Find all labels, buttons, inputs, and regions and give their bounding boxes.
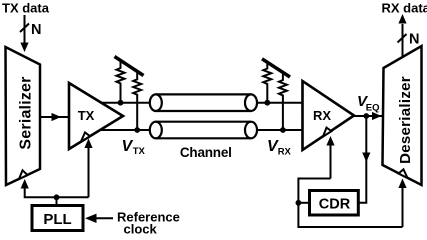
TX clock input triangle: [81, 132, 90, 141]
termination resistor TX top: [117, 60, 125, 103]
wire channel to RX minus: [257, 129, 333, 131]
deserializer clock input triangle: [399, 169, 408, 178]
RX clock input triangle: [323, 128, 332, 137]
bus-width slash N: [20, 24, 29, 33]
bus-width slash N RX: [398, 34, 407, 43]
wire CDR clock to deserializer with arrowhead: [398, 179, 406, 228]
wire dot to PLL box: [56, 197, 58, 205]
wire deserializer to RX data bus: [398, 14, 406, 57]
RX supply termination rail: [262, 59, 290, 77]
junction dot CDR output: [296, 200, 302, 206]
wire serializer to TX with arrowhead: [40, 113, 69, 121]
transmission line cylinder bottom: [150, 122, 257, 139]
svg-text:TX data: TX data: [2, 1, 50, 16]
svg-text:clock: clock: [124, 221, 158, 236]
wire PLL clock to TX with arrowhead: [84, 139, 92, 198]
TX driver triangle: [69, 83, 123, 149]
wire channel to RX plus: [257, 102, 335, 104]
svg-text:N: N: [409, 32, 419, 48]
wire CDR to deserializer clock path: [298, 203, 402, 227]
wire TX output minus: [100, 129, 150, 131]
junction dot RX top line: [264, 100, 270, 106]
termination resistor TX bottom: [133, 71, 141, 130]
svg-text:PLL: PLL: [43, 211, 71, 228]
wire CDR to RX clock path: [298, 179, 330, 203]
junction dot RX bottom line: [280, 127, 286, 133]
wire PLL to serializer and TX: [25, 186, 89, 197]
RX amplifier triangle: [303, 81, 355, 150]
svg-text:RX: RX: [278, 146, 292, 157]
deserializer block: [383, 46, 422, 185]
svg-text:N: N: [31, 22, 41, 38]
svg-text:TX: TX: [133, 146, 146, 157]
termination resistor RX top: [263, 62, 271, 102]
svg-text:Serializer: Serializer: [18, 76, 35, 149]
svg-text:CDR: CDR: [319, 197, 351, 213]
wire CDR output left: [298, 202, 309, 204]
svg-text:TX: TX: [78, 108, 95, 123]
junction dot PLL top: [54, 194, 60, 200]
wire V EQ down to CDR with arrowhead: [358, 116, 370, 203]
arrowhead PLL to serializer clock: [21, 179, 29, 189]
wire RX output to deserializer with arrowhead: [354, 112, 383, 120]
wire CDR clock to RX with arrowhead: [326, 136, 334, 179]
TX supply termination rail: [115, 57, 144, 76]
svg-text:V: V: [122, 138, 134, 155]
serializer clock input triangle: [19, 170, 28, 179]
termination resistor RX bottom: [279, 72, 287, 130]
svg-text:EQ: EQ: [366, 102, 380, 113]
wire TX data bus into serializer: [20, 15, 28, 52]
serializer block: [6, 47, 41, 185]
wire reference clock into PLL with arrowhead: [85, 214, 113, 223]
svg-text:RX: RX: [313, 108, 331, 123]
transmission line cylinder top: [150, 94, 257, 111]
svg-text:RX data: RX data: [382, 1, 427, 16]
junction dot TX bottom line: [134, 127, 140, 133]
svg-text:Deserializer: Deserializer: [397, 76, 414, 164]
CDR box: [310, 191, 359, 216]
svg-text:Channel: Channel: [180, 145, 232, 160]
junction dot TX top line: [118, 100, 124, 106]
PLL box: [32, 206, 83, 231]
node V EQ junction dot: [363, 113, 369, 119]
wire TX output plus: [102, 102, 151, 104]
